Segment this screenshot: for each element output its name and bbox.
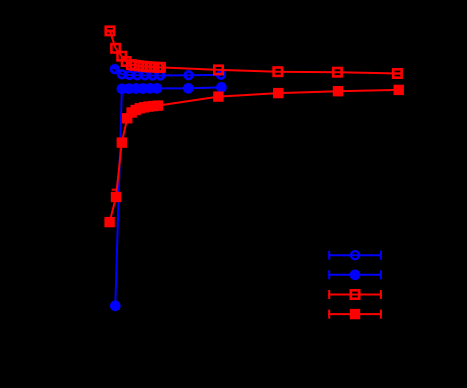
legend entry 3: red open square errorbar sample — [328, 290, 382, 299]
markers: red open squares — [106, 27, 402, 78]
legend entry 2: blue filled circle errorbar sample — [328, 269, 382, 280]
series line: blue filled-circle curve — [115, 87, 221, 306]
error bar (x) on last red open-square point — [393, 72, 402, 74]
legend entry 4: red filled square errorbar sample — [328, 309, 382, 319]
series line: blue open-circle curve — [115, 69, 221, 75]
legend entry 1: blue open circle errorbar sample — [328, 251, 382, 260]
error bar (x) on first red open-square point — [106, 30, 115, 33]
series line: red open-square curve — [110, 31, 398, 74]
error bar cap on red filled series — [112, 189, 116, 191]
markers: blue filled circles — [110, 82, 227, 311]
markers: blue open circles — [111, 65, 225, 79]
markers: red filled squares — [104, 85, 404, 228]
error bar (x) on first blue open-circle point — [112, 67, 117, 69]
series line: red filled-square curve — [110, 90, 399, 222]
